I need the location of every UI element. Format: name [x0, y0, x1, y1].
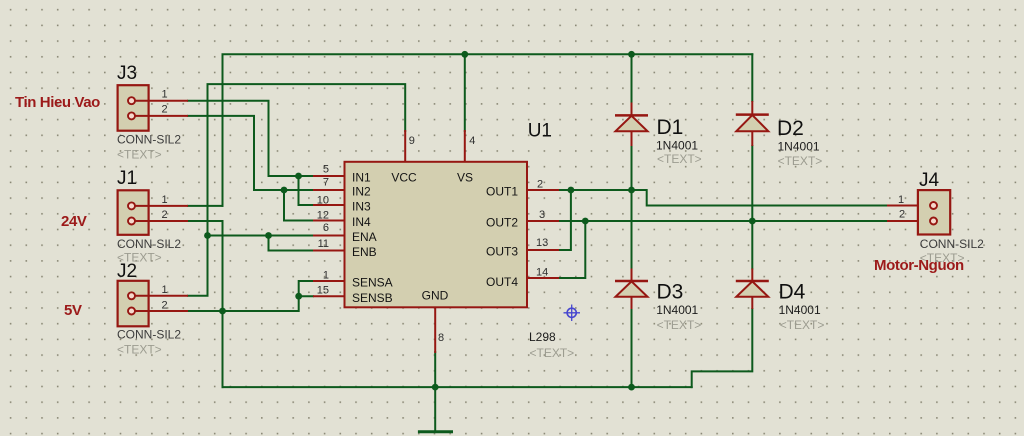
pin J2.2 stub: [134, 310, 188, 312]
wire J2 pin1 to VCC (5V net): [188, 84, 405, 296]
svg-text:4: 4: [469, 135, 475, 147]
junction node VS/rail: [461, 51, 468, 58]
svg-text:IN3: IN3: [352, 200, 371, 214]
svg-text:1: 1: [162, 284, 168, 296]
svg-text:OUT2: OUT2: [486, 215, 518, 229]
pin GND pin8 red: [434, 307, 436, 352]
svg-text:2: 2: [162, 209, 168, 221]
svg-text:13: 13: [536, 237, 548, 249]
pin circle J3.2: [128, 112, 135, 119]
connector J3 body: [118, 85, 149, 131]
svg-text:14: 14: [536, 267, 548, 279]
connector J1 body: [118, 190, 149, 235]
svg-text:D3: D3: [657, 281, 684, 304]
svg-text:1N4001: 1N4001: [656, 138, 698, 152]
svg-text:<TEXT>: <TEXT>: [657, 152, 702, 166]
pin ENB red stub: [313, 250, 345, 252]
pin circle J3.1: [128, 97, 135, 104]
svg-text:VCC: VCC: [391, 171, 417, 185]
pin J1.2 stub: [134, 220, 188, 222]
svg-text:12: 12: [317, 209, 329, 221]
origin marker (blue crosshair): [564, 305, 581, 322]
junction node J1.2/J2.2 ground: [219, 308, 226, 315]
svg-text:2: 2: [162, 104, 168, 116]
pin circle J4.2: [930, 218, 937, 225]
pin OUT2 pin3 red stub: [527, 220, 558, 222]
wire D1 top to rail: [631, 54, 633, 102]
svg-text:6: 6: [323, 222, 329, 234]
pin SENSA red stub: [313, 280, 345, 282]
svg-text:D2: D2: [777, 117, 804, 140]
svg-text:1N4001: 1N4001: [778, 139, 820, 153]
svg-text:<TEXT>: <TEXT>: [117, 343, 162, 357]
svg-text:15: 15: [317, 285, 329, 297]
svg-text:D1: D1: [657, 116, 684, 139]
svg-text:CONN-SIL2: CONN-SIL2: [117, 328, 181, 342]
junction node OUT2/D2/D4: [749, 218, 756, 225]
wire OUT4 riser to OUT2: [558, 221, 585, 278]
svg-text:1: 1: [162, 89, 168, 101]
svg-text:D4: D4: [779, 281, 806, 304]
svg-text:CONN-SIL2: CONN-SIL2: [117, 237, 181, 251]
svg-text:IN1: IN1: [352, 171, 371, 185]
connector J2 body: [118, 281, 149, 327]
wire OUT2 net to J4 pin2: [558, 220, 888, 222]
diode D4: [736, 269, 769, 310]
wire J3 pin1 to IN1: [188, 101, 313, 176]
svg-text:24V: 24V: [61, 213, 87, 230]
svg-text:5: 5: [323, 164, 329, 176]
pin J3.1 stub: [134, 100, 188, 102]
junction node OUT1/D1/D3: [628, 187, 635, 194]
wire top supply rail from J1 pin1 riser to D2: [223, 54, 753, 206]
wire VS riser green: [464, 54, 466, 131]
svg-text:1N4001: 1N4001: [656, 303, 698, 317]
wire D3 bottom to ground rail: [631, 309, 633, 387]
diode D1: [615, 103, 648, 147]
svg-text:3: 3: [539, 209, 545, 221]
op-amp U1 L298 body: [345, 162, 528, 307]
pin circle J2.2: [128, 308, 135, 315]
svg-text:IN4: IN4: [352, 215, 371, 229]
junction node D3/rail: [628, 384, 635, 391]
wire D3 top to OUT1 net: [631, 190, 633, 269]
junction node D1/rail: [628, 51, 635, 58]
svg-text:IN2: IN2: [352, 185, 371, 199]
svg-text:8: 8: [438, 332, 444, 344]
pin IN4 red stub: [313, 220, 345, 222]
pin VS pin4 red: [464, 131, 466, 162]
wire OUT1 net to D1/D3 junction and J4 pin1: [558, 190, 888, 206]
pin IN3 red stub: [313, 204, 345, 206]
pin circle J1.1: [128, 202, 135, 209]
junction node GND pin/rail: [432, 384, 439, 391]
svg-text:SENSA: SENSA: [352, 276, 393, 290]
svg-text:1: 1: [323, 269, 329, 281]
svg-text:GND: GND: [422, 288, 449, 302]
wire ENA/ENB tie to 5V net: [208, 236, 269, 251]
svg-text:2: 2: [899, 209, 905, 221]
pin J4 pin1 red stub: [888, 205, 930, 207]
diode D3: [615, 269, 648, 310]
svg-text:OUT1: OUT1: [486, 184, 518, 198]
junction node ENA/ENB: [265, 232, 272, 239]
svg-text:CONN-SIL2: CONN-SIL2: [117, 133, 181, 147]
svg-text:SENSB: SENSB: [352, 291, 393, 305]
pin OUT3 pin13 red stub: [527, 249, 558, 251]
wire ENA branch: [269, 235, 314, 237]
svg-text:<TEXT>: <TEXT>: [117, 148, 162, 162]
svg-text:Tin Hieu Vao: Tin Hieu Vao: [15, 94, 100, 111]
pin ENA red stub: [313, 235, 345, 237]
svg-text:5V: 5V: [64, 302, 82, 319]
wire D4 bottom to ground rail jog: [692, 309, 753, 387]
svg-text:U1: U1: [528, 121, 552, 142]
wire ENB branch: [269, 250, 314, 252]
junction node 5V/ENA: [204, 232, 211, 239]
junction node OUT1/OUT3: [568, 187, 575, 194]
wire OUT2 net to D4 top: [751, 221, 753, 269]
svg-text:CONN-SIL2: CONN-SIL2: [920, 237, 984, 251]
pin SENSB red stub: [313, 295, 345, 297]
wire D2 top to rail corner: [751, 54, 753, 101]
pin circle J4.1: [930, 202, 937, 209]
wire D1 bottom to OUT1: [631, 146, 633, 190]
svg-text:J3: J3: [117, 63, 137, 84]
svg-text:J4: J4: [919, 170, 940, 191]
svg-text:1N4001: 1N4001: [779, 303, 821, 317]
wire OUT3 riser to OUT1: [558, 190, 571, 250]
junction node SENSA/SENSB: [295, 293, 302, 300]
connector J4 body: [918, 190, 950, 234]
pin J1.1 stub: [134, 205, 188, 207]
svg-text:Motor-Nguon: Motor-Nguon: [874, 257, 964, 274]
wire D2 bottom to OUT2 net: [751, 146, 753, 221]
wire IN1 to IN3 tie: [299, 176, 314, 205]
svg-text:9: 9: [409, 135, 415, 147]
svg-text:OUT3: OUT3: [486, 244, 518, 258]
svg-text:J1: J1: [117, 168, 137, 189]
svg-text:1: 1: [898, 194, 904, 206]
pin VCC pin9 red: [404, 131, 406, 162]
wire SENSB branch: [299, 295, 313, 297]
wire J2 pin2 to sense net: [188, 281, 313, 311]
svg-text:1: 1: [162, 194, 168, 206]
pin circle J1.2: [128, 218, 135, 225]
svg-text:11: 11: [318, 238, 329, 250]
junction node IN2/IN4: [281, 187, 288, 194]
pin OUT4 pin14 red stub: [527, 277, 558, 279]
svg-text:ENB: ENB: [352, 245, 377, 259]
svg-text:<TEXT>: <TEXT>: [530, 346, 575, 360]
svg-text:<TEXT>: <TEXT>: [778, 154, 823, 168]
svg-text:2: 2: [162, 300, 168, 312]
pin IN1 red stub: [313, 175, 345, 177]
svg-text:<TEXT>: <TEXT>: [657, 318, 702, 332]
pin J4 pin2 red stub: [888, 220, 930, 222]
wire GND pin drop to ground symbol: [434, 352, 436, 432]
svg-text:2: 2: [537, 179, 543, 191]
wire ground rail: [223, 386, 692, 388]
pin J2.1 stub: [134, 295, 188, 297]
diode D2: [736, 101, 769, 146]
svg-text:<TEXT>: <TEXT>: [780, 318, 825, 332]
pin circle J2.1: [128, 292, 135, 299]
ground symbol bar: [419, 430, 451, 433]
pin J3.2 stub: [134, 115, 188, 117]
svg-text:7: 7: [323, 177, 329, 189]
junction node IN1/IN3: [295, 173, 302, 180]
junction node OUT2/OUT4: [582, 218, 589, 225]
wire IN2 to IN4 tie: [284, 190, 313, 221]
pin OUT1 pin2 red stub: [527, 189, 558, 191]
svg-text:10: 10: [317, 195, 329, 207]
svg-text:L298: L298: [529, 330, 556, 344]
svg-text:<TEXT>: <TEXT>: [117, 251, 162, 265]
wire J1 pin1 stub to riser: [188, 205, 223, 207]
svg-text:ENA: ENA: [352, 230, 377, 244]
svg-text:VS: VS: [457, 171, 473, 185]
wire J1 pin2 to ground rail: [188, 221, 223, 387]
wire J3 pin2 to IN2: [188, 116, 313, 190]
pin IN2 red stub: [313, 189, 345, 191]
svg-text:OUT4: OUT4: [486, 275, 518, 289]
